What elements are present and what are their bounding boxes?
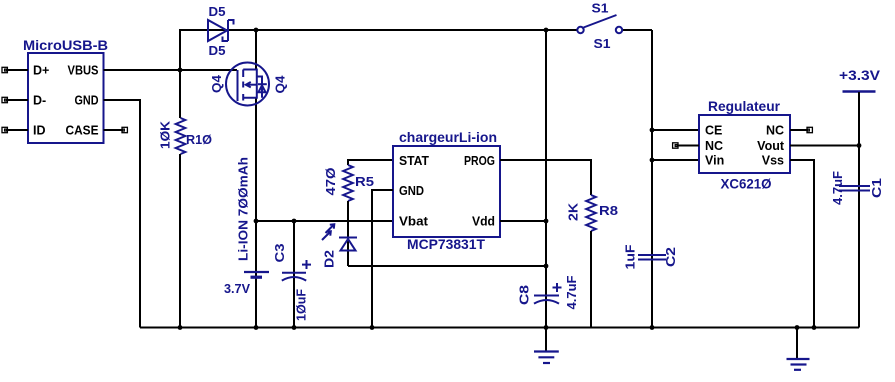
svg-text:Vin: Vin (705, 154, 724, 168)
wire Vbat horizontal (256, 220, 393, 222)
wire main Vdd vertical (545, 30, 547, 328)
node CE junction (650, 128, 655, 133)
pin NC left terminal square (673, 143, 678, 148)
svg-text:XC621Ø: XC621Ø (721, 176, 772, 192)
svg-text:4.7uF: 4.7uF (831, 171, 845, 205)
wire D2 anode right to Vdd net (348, 265, 546, 267)
svg-text:C8: C8 (518, 285, 532, 305)
resistor R10 zigzag (176, 118, 186, 154)
svg-text:chargeurLi-ion: chargeurLi-ion (399, 129, 497, 145)
wire ground rail (140, 327, 859, 329)
capacitor C8 plus sign (553, 283, 562, 292)
wire Vss down to rail (790, 160, 814, 328)
switch S1 symbol (577, 15, 622, 33)
wire GND pin to ground rail (372, 190, 393, 328)
capacitor C2 plates (638, 255, 666, 260)
pin D+ terminal square (2, 67, 7, 72)
svg-text:1uF: 1uF (624, 244, 638, 269)
pin NC right terminal square (807, 127, 812, 132)
transistor Q4 source wire down to battery (255, 98, 257, 328)
svg-text:D5: D5 (209, 44, 226, 58)
svg-text:NC: NC (705, 139, 723, 153)
svg-text:D2: D2 (323, 250, 337, 268)
ground (center) stem (545, 328, 547, 352)
svg-text:3.7V: 3.7V (224, 282, 251, 296)
node battery/Vbat junction (254, 219, 259, 224)
diode D5 (schottky) (208, 20, 234, 41)
svg-text:C3: C3 (273, 243, 287, 262)
ground (right) bars (787, 359, 810, 370)
wire PROG to R8 (500, 160, 591, 195)
svg-text:R5: R5 (355, 175, 374, 189)
svg-text:MCP73831T: MCP73831T (407, 236, 485, 252)
IC U2 Regulateur box (699, 115, 790, 173)
svg-text:R1Ø: R1Ø (186, 133, 212, 147)
pin ID terminal square (2, 127, 7, 132)
svg-text:Vss: Vss (762, 154, 784, 168)
svg-text:PROG: PROG (464, 154, 495, 168)
node VBUS/R10/D5 junction (178, 68, 183, 73)
node C3 top junction (292, 219, 297, 224)
svg-text:+3.3V: +3.3V (839, 67, 881, 83)
resistor R5 wire from STAT (348, 160, 393, 165)
svg-text:VBUS: VBUS (68, 64, 99, 78)
connector J1 MicroUSB-B box (28, 53, 104, 143)
wire regulator input vertical (651, 30, 653, 328)
node Vin junction (650, 158, 655, 163)
wire +3.3V vertical (858, 92, 860, 328)
svg-text:C2: C2 (664, 247, 678, 267)
resistor R8 zigzag (586, 195, 596, 231)
svg-text:C1: C1 (870, 178, 884, 198)
transistor Q4 P-MOSFET symbol (226, 63, 269, 106)
node rail C2 (650, 325, 655, 330)
pin D- stub wire (7, 99, 28, 101)
pin CASE stub wire (104, 129, 123, 131)
svg-text:Vdd: Vdd (472, 215, 495, 229)
node Vdd junction (544, 219, 549, 224)
wire GND right then down to ground rail (104, 100, 141, 328)
svg-text:MicroUSB-B: MicroUSB-B (23, 37, 108, 53)
resistor R10 bottom lead (179, 154, 181, 328)
pin D- terminal square (2, 97, 7, 102)
svg-text:CE: CE (705, 124, 722, 138)
node rail C3 (292, 325, 297, 330)
wire Vout to +3.3V vertical (790, 145, 859, 147)
svg-text:Regulateur: Regulateur (708, 98, 781, 114)
node rail ground stem (795, 325, 800, 330)
resistor R10 top lead (179, 70, 181, 118)
LED D2 symbol (322, 224, 357, 250)
svg-text:GND: GND (75, 94, 99, 108)
svg-text:STAT: STAT (399, 154, 429, 168)
node Vss rail junction (812, 325, 817, 330)
wire Vin (652, 159, 699, 161)
node rail GND pin (370, 325, 375, 330)
capacitor C1 plates (839, 186, 870, 191)
wire R5 to D2 (347, 201, 349, 266)
svg-text:2K: 2K (567, 203, 581, 221)
node rail R10 (178, 325, 183, 330)
pin ID stub wire (7, 129, 28, 131)
svg-text:D-: D- (33, 94, 46, 108)
capacitor C3 plus sign (302, 260, 311, 269)
node rail battery (254, 325, 259, 330)
svg-text:4.7uF: 4.7uF (565, 275, 579, 309)
svg-text:ID: ID (33, 124, 46, 138)
svg-text:Q4: Q4 (274, 75, 288, 93)
ground (right) stem (796, 328, 798, 359)
svg-text:47Ø: 47Ø (324, 167, 338, 195)
wire C3 vertical (293, 221, 295, 328)
resistor R5 zigzag (343, 165, 353, 201)
wire D5 cathode to S1 (208, 29, 577, 31)
svg-text:1ØuF: 1ØuF (295, 289, 309, 321)
pin D+ stub wire (7, 69, 28, 71)
pin CASE terminal square (122, 127, 127, 132)
node Vout junction (857, 143, 862, 148)
svg-text:D+: D+ (33, 64, 49, 78)
switch S1 wire right to corner (622, 29, 652, 31)
ground (center) bars (534, 352, 559, 364)
capacitor C8 plates (534, 296, 559, 304)
svg-text:Q4: Q4 (210, 75, 224, 93)
wire Vdd pin to vertical (500, 220, 546, 222)
svg-text:S1: S1 (594, 37, 611, 51)
svg-text:Vout: Vout (757, 139, 785, 153)
svg-text:CASE: CASE (66, 124, 99, 138)
svg-text:NC: NC (766, 124, 784, 138)
wire CE (652, 129, 699, 131)
svg-text:GND: GND (399, 184, 424, 198)
svg-text:R8: R8 (599, 204, 618, 218)
resistor R8 bottom lead (590, 231, 592, 328)
IC U1 chargeurLi-ion box (393, 146, 500, 237)
power +3.3V bar (843, 90, 876, 93)
svg-text:Vbat: Vbat (399, 215, 429, 229)
node top S1 branch junction (544, 28, 549, 33)
transistor Q4 drain wire from top (255, 30, 257, 70)
node D2 wire to Vdd vertical junction (544, 264, 549, 269)
pin NC left stub (678, 145, 699, 147)
node D5/Q4 junction (254, 28, 259, 33)
wire D5 branch vertical (180, 30, 208, 70)
pin NC right stub (790, 129, 807, 131)
svg-text:Li-ION 7ØØmAh: Li-ION 7ØØmAh (237, 157, 251, 261)
capacitor C3 plates (282, 273, 306, 281)
svg-text:S1: S1 (592, 2, 609, 16)
node rail C8 (544, 325, 549, 330)
svg-text:D5: D5 (209, 5, 226, 19)
battery BT1 plates (244, 272, 269, 277)
wire VBUS to gate of Q4 (104, 69, 238, 71)
svg-text:1ØK: 1ØK (159, 121, 173, 149)
